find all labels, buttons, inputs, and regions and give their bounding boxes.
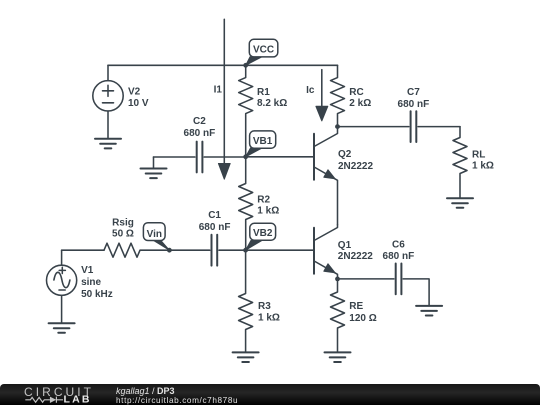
net label Vin [143,223,169,251]
svg-text:LAB: LAB [64,394,92,405]
svg-text:680 nF: 680 nF [398,99,430,110]
CircuitLab logo [20,384,98,410]
svg-text:I1: I1 [214,84,223,95]
svg-text:1 kΩ: 1 kΩ [258,312,280,323]
net label VB1 [246,131,276,157]
svg-text:Rsig: Rsig [112,217,134,228]
resistor R2 [239,157,253,250]
svg-text:50 kHz: 50 kHz [81,289,113,300]
footer bar [0,384,540,405]
svg-text:680 nF: 680 nF [199,222,231,233]
resistor RE [331,279,345,352]
ground (C6) [416,306,442,316]
transistor Q1 2N2222 [314,225,338,279]
svg-text:VB2: VB2 [253,228,273,239]
ground (V1) [49,323,75,333]
wire C2 to VB1 node [204,156,246,158]
svg-text:R3: R3 [258,301,271,312]
capacitor C1 [212,235,218,266]
svg-text:V1: V1 [81,265,94,276]
svg-text:V2: V2 [128,87,141,98]
footer url line [116,396,238,405]
wire C2 left [154,156,195,158]
svg-text:R1: R1 [257,87,270,98]
svg-text:sine: sine [81,277,101,288]
node RC-collector [335,124,340,129]
capacitor C7 [411,111,460,142]
voltage source V2 [93,65,123,138]
wire VB2 to Q1 base [246,249,314,251]
svg-text:VB1: VB1 [253,136,273,147]
svg-text:Ic: Ic [306,85,315,96]
resistor R3 [239,250,253,352]
transistor Q2 2N2222 [314,127,338,225]
svg-text:RC: RC [349,87,363,98]
wire collector row to C7 [338,126,409,128]
resistor Rsig [104,243,169,257]
svg-text:C2: C2 [193,116,206,127]
wire Vin to C1 [169,249,209,251]
svg-text:C7: C7 [407,87,420,98]
svg-text:2N2222: 2N2222 [338,251,373,262]
node VCC [243,63,248,68]
svg-text:1 kΩ: 1 kΩ [472,161,494,172]
resistor RC [331,65,345,126]
svg-text:2 kΩ: 2 kΩ [349,98,371,109]
wire C6 to ground [403,279,429,306]
svg-text:Q2: Q2 [338,149,352,160]
net label VCC [246,39,278,65]
svg-text:1 kΩ: 1 kΩ [257,206,279,217]
node VB2 [243,248,248,253]
svg-text:680 nF: 680 nF [383,251,415,262]
wire C1 to VB2 node [219,249,246,251]
resistor R1 [239,65,253,156]
svg-text:8.2 kΩ: 8.2 kΩ [257,98,287,109]
svg-text:RE: RE [349,301,363,312]
node Vin [167,248,172,253]
ground (RL) [447,198,473,208]
net label VB2 [246,223,276,250]
ground (C2) [141,157,167,178]
wire V1 to Rsig [62,249,104,251]
voltage source V1 (sine) [47,250,77,323]
current probe I1 [218,19,230,179]
svg-text:680 nF: 680 nF [184,128,216,139]
ground (R3) [233,352,259,362]
node VB1 [243,154,248,159]
svg-text:Vin: Vin [147,229,162,240]
svg-text:VCC: VCC [253,44,274,55]
wire emitter to C6 [338,278,394,280]
svg-text:C1: C1 [208,210,221,221]
footer credit line [116,387,175,396]
svg-text:R2: R2 [257,194,270,205]
svg-text:120 Ω: 120 Ω [349,313,376,324]
svg-text:Q1: Q1 [338,240,352,251]
svg-text:2N2222: 2N2222 [338,161,373,172]
svg-text:10 V: 10 V [128,98,149,109]
wire top rail VCC [108,64,338,66]
ground (RE) [325,352,351,362]
wire VB1 to Q2 base [246,156,314,158]
resistor RL [453,127,467,198]
svg-text:50 Ω: 50 Ω [112,229,134,240]
current probe Ic [316,70,328,121]
capacitor C2 [197,142,203,173]
ground (V2) [95,139,121,149]
svg-text:C6: C6 [392,240,405,251]
svg-text:RL: RL [472,150,485,161]
capacitor C6 [396,264,402,295]
node Q1 emitter [335,277,340,282]
